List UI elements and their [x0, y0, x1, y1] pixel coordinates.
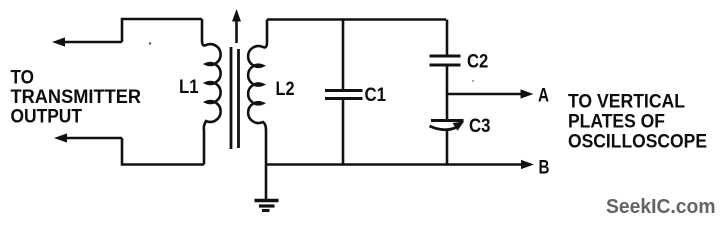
svg-text:TO VERTICAL: TO VERTICAL: [568, 91, 685, 113]
wire C2 top lead: [446, 20, 449, 56]
svg-text:C3: C3: [469, 115, 491, 137]
ink speck: [472, 80, 474, 82]
capacitor C1: [325, 91, 363, 99]
svg-text:OSCILLOSCOPE: OSCILLOSCOPE: [568, 131, 707, 153]
wire bottom-left: rail from arrow step to L1 bottom: [122, 138, 204, 165]
wire top-left: step from arrow up to top rail of L1: [122, 19, 202, 42]
label: TO VERTICAL PLATES OF OSCILLOSCOPE: [568, 91, 707, 153]
svg-text:SeekIC.com: SeekIC.com: [606, 195, 716, 218]
tuning arrow (up): [232, 9, 241, 43]
svg-text:L1: L1: [179, 76, 199, 98]
svg-text:OUTPUT: OUTPUT: [11, 106, 83, 128]
svg-text:B: B: [539, 156, 550, 178]
ink speck: [149, 42, 151, 44]
svg-text:A: A: [538, 84, 549, 106]
transformer core: [231, 47, 239, 149]
ground: [255, 165, 279, 211]
label: TO TRANSMITTER OUTPUT: [11, 66, 142, 127]
wire C1 bottom lead: [342, 99, 345, 165]
wire C1 top lead: [342, 20, 345, 90]
wire top rail (right circuit): [267, 18, 446, 21]
svg-text:C2: C2: [467, 50, 488, 72]
inductor L2: [248, 20, 267, 165]
capacitor C2: [430, 56, 461, 65]
arrow to transmitter output (top): [52, 37, 122, 46]
capacitor C3 (variable): [430, 121, 465, 131]
inductor L1: [202, 19, 221, 165]
svg-text:TO: TO: [11, 66, 35, 88]
arrow to transmitter output (bottom): [54, 133, 122, 142]
wire C2 to C3: [446, 66, 449, 120]
node A wire and arrow: [447, 89, 534, 98]
svg-text:PLATES OF: PLATES OF: [568, 111, 665, 133]
wire bottom rail with node B arrow: [266, 160, 534, 169]
wire C3 bottom lead: [446, 130, 449, 165]
svg-text:L2: L2: [276, 78, 295, 100]
svg-text:C1: C1: [365, 84, 387, 106]
